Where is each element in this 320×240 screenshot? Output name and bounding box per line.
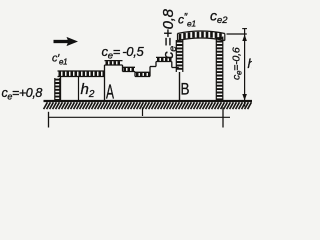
left building roof snow band: [58, 71, 105, 77]
right tick: [222, 108, 224, 128]
ground line: [44, 100, 253, 102]
left building right wall: [104, 65, 106, 101]
ground hatching: [44, 102, 252, 109]
left building left wall: [60, 77, 62, 101]
svg-text:ce=-0,6: ce=-0,6: [231, 47, 244, 80]
middle tick: [142, 108, 144, 117]
sawtooth last ledge: [172, 67, 179, 69]
tall building left ladder wall: [176, 40, 183, 72]
svg-text:B: B: [181, 80, 190, 99]
sawtooth short ledge: [150, 66, 156, 68]
top overshoot tick: [242, 28, 247, 30]
dimension arrowheads: [242, 35, 247, 101]
sawtooth band 2 (mid plateau): [123, 67, 136, 71]
tall building right ladder wall: [216, 37, 223, 101]
h2 dimension line inside left building: [78, 77, 80, 101]
sawtooth band 3 (low plateau): [135, 72, 150, 76]
bottom dimension line: [49, 116, 231, 118]
sawtooth mid roof: step walls: [123, 62, 172, 77]
roof extension line to h dimension: [227, 33, 247, 35]
left building left ladder wall: [55, 78, 60, 101]
left tick: [48, 112, 50, 128]
sawtooth band 1 (high plateau): [105, 61, 123, 65]
tall building roof snow band (arched): [178, 31, 225, 41]
wind arrow: [54, 40, 70, 43]
sawtooth band 4 (high plateau): [156, 57, 172, 61]
vertical dimension line h: [244, 28, 246, 107]
svg-text:h: h: [248, 56, 253, 71]
tall building left wall lower part: [179, 72, 181, 101]
